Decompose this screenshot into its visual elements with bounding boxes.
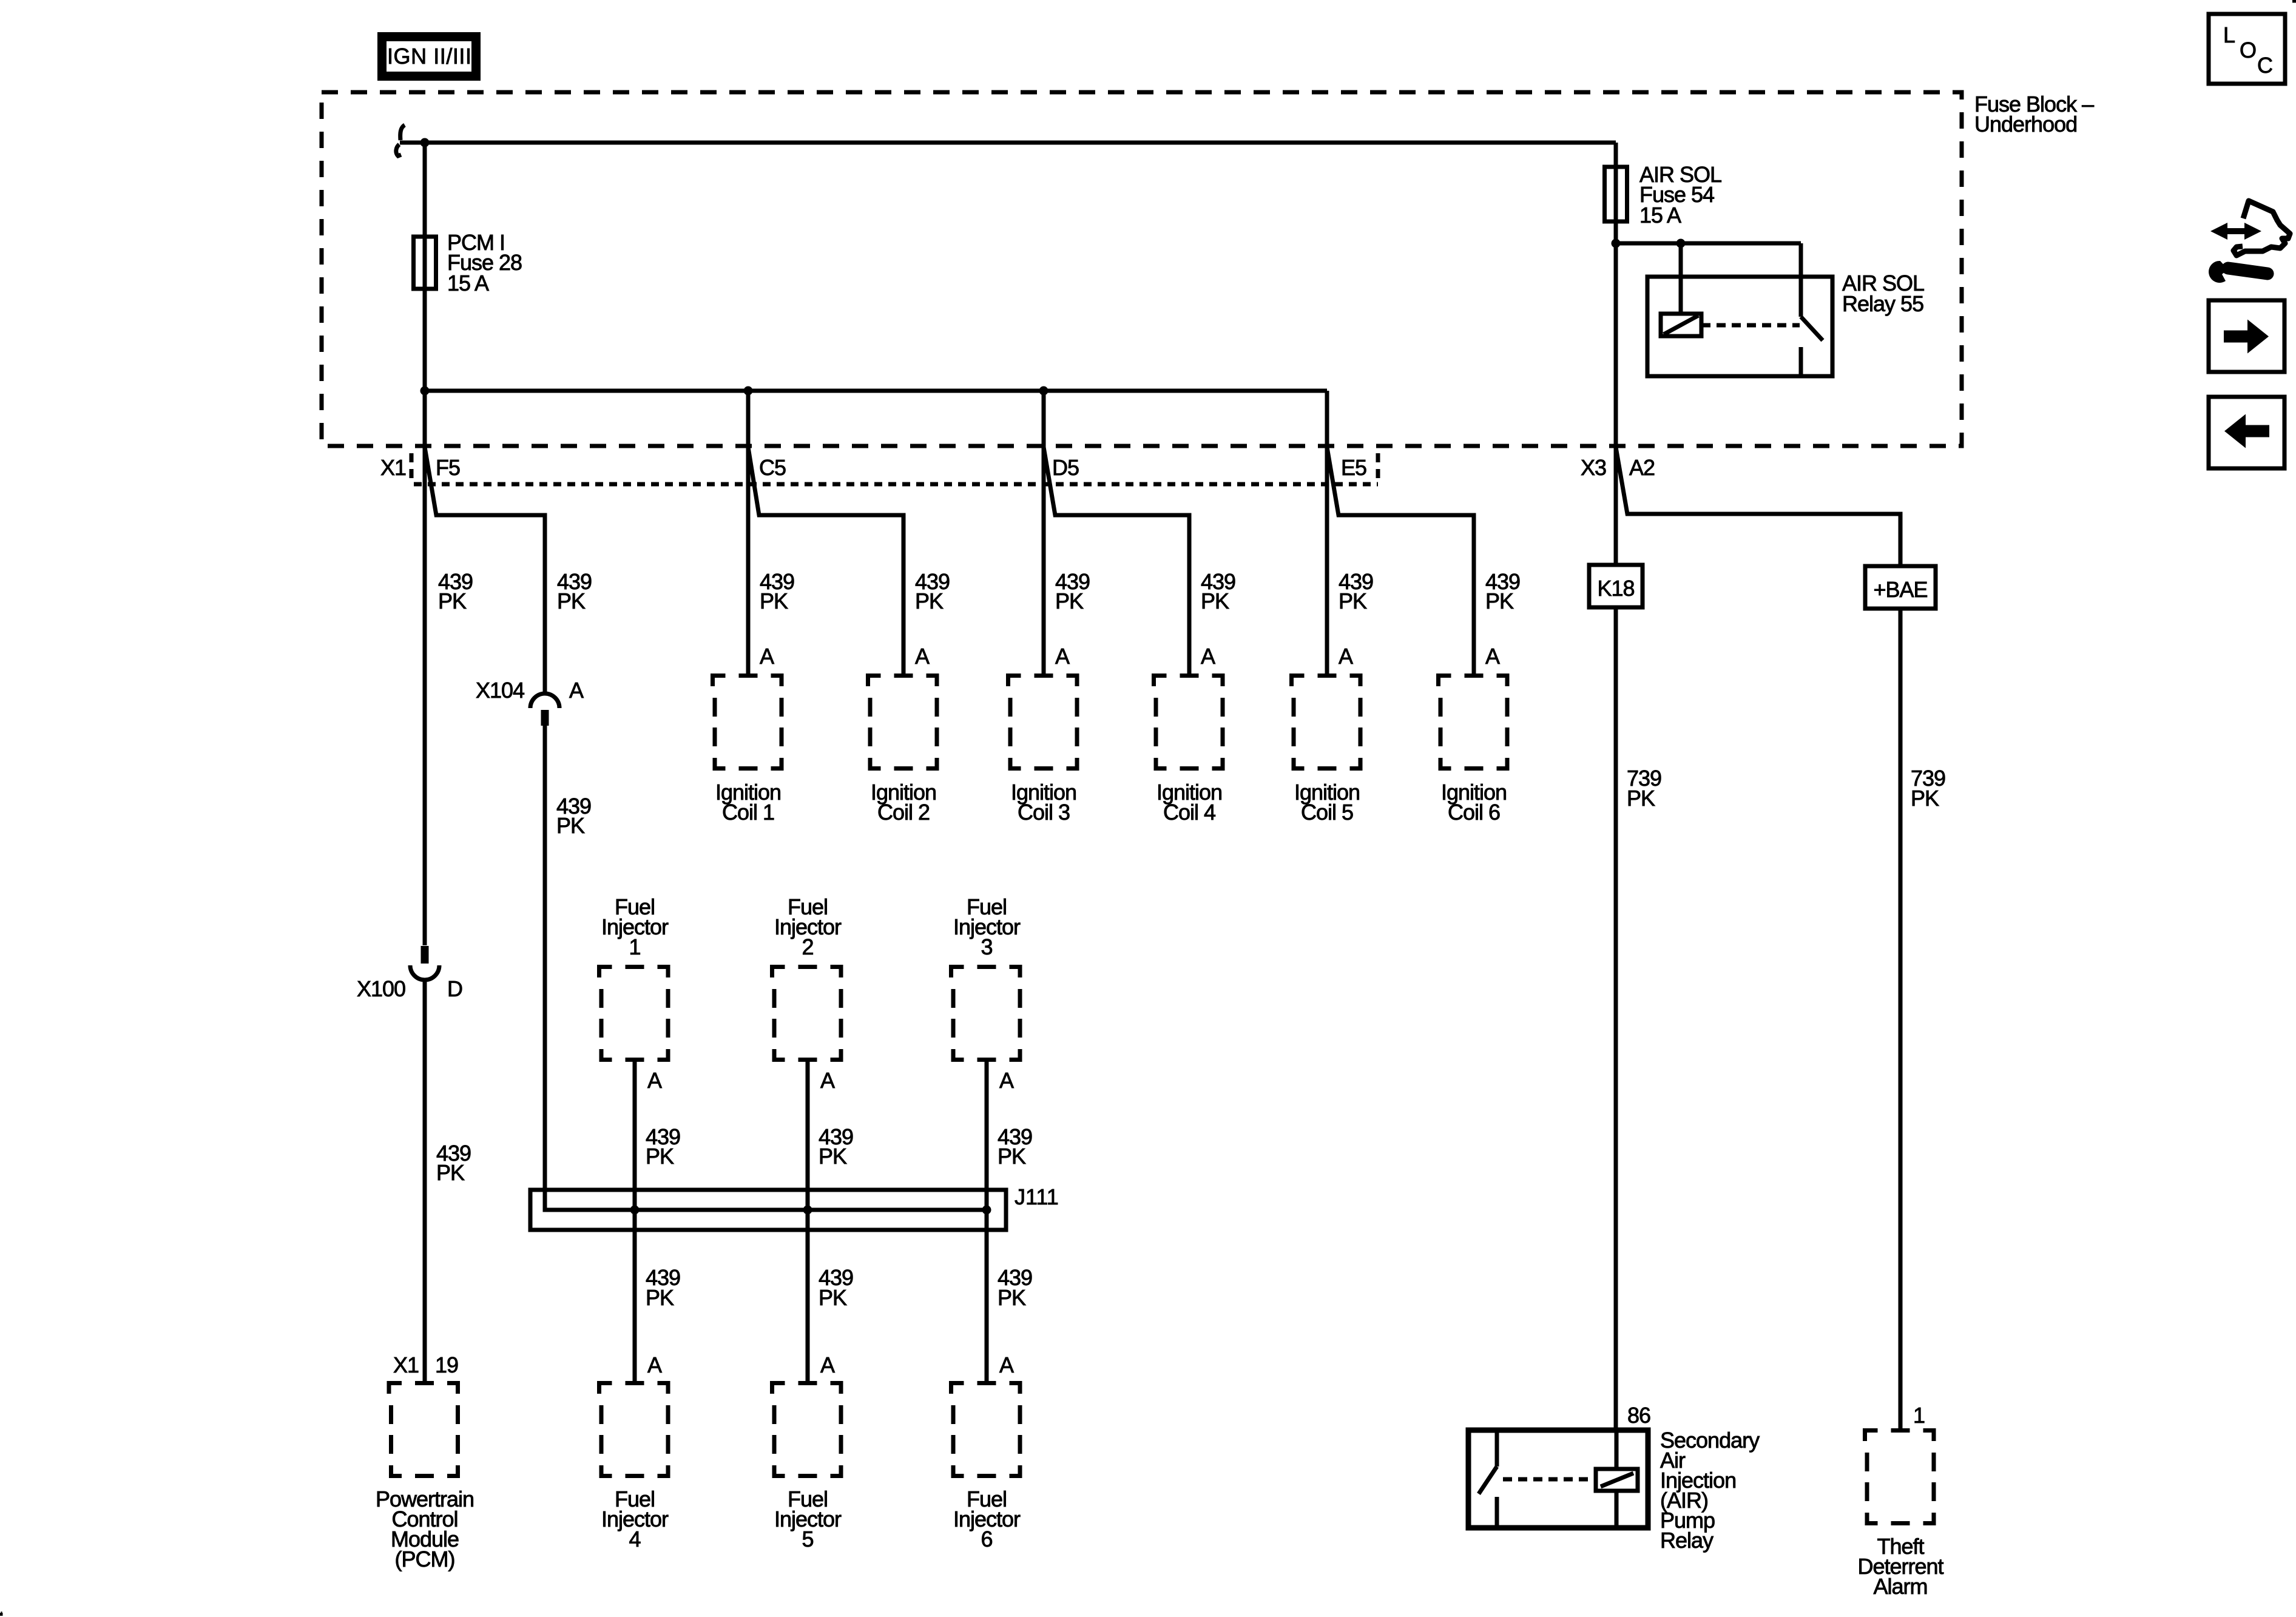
svg-text:PK: PK	[819, 1285, 847, 1310]
svg-text:C5: C5	[759, 455, 786, 480]
fuse PCM I Fuse 28 15A	[414, 237, 436, 289]
svg-text:PK: PK	[1055, 589, 1084, 613]
wire label 439 PK coil 4	[1201, 569, 1235, 613]
svg-text:2: 2	[802, 934, 813, 959]
label AIR SOL Relay 55	[1842, 271, 1924, 316]
svg-text:15 A: 15 A	[1639, 203, 1681, 228]
svg-text:J111: J111	[1015, 1184, 1059, 1209]
pump relay coil	[1596, 1469, 1638, 1491]
svg-text:PK: PK	[998, 1285, 1026, 1310]
label Fuel Injector 5	[774, 1487, 842, 1551]
label Fuel Injector 1	[601, 894, 669, 959]
label Ignition Coil 2	[871, 780, 936, 825]
label Ignition Coil 3	[1011, 780, 1076, 825]
svg-text:K18: K18	[1597, 576, 1634, 601]
component location icon (double arrow, outline, wrench)	[2209, 201, 2290, 283]
node: junction top bus / PCM fuse	[420, 138, 430, 147]
wire: second bus to ignition coil columns	[425, 389, 1327, 393]
svg-text:A: A	[1339, 644, 1353, 669]
fuse block underhood dashed box	[322, 92, 1962, 446]
connector row dotted line X1	[414, 482, 1378, 487]
AIR pump relay box	[1468, 1430, 1648, 1528]
label Powertrain Control Module (PCM)	[376, 1487, 474, 1571]
label Fuel Injector 4	[601, 1487, 669, 1551]
label Fuel Injector 3	[953, 894, 1021, 959]
svg-text:PK: PK	[760, 589, 788, 613]
svg-text:5: 5	[802, 1527, 813, 1551]
PCM box	[389, 1381, 460, 1478]
svg-text:F5: F5	[436, 455, 460, 480]
wire label 439 PK coil 2	[915, 569, 950, 613]
wire label 439 PK coil 3	[1055, 569, 1090, 613]
wire: C5 branch to coil 2	[748, 447, 903, 678]
svg-text:L: L	[2223, 22, 2235, 47]
label Ignition Coil 1	[715, 780, 781, 825]
node: splice junction 3	[982, 1206, 991, 1215]
wire label 439 PK injector 3	[998, 1124, 1032, 1169]
wire label 439 PK injector 6	[998, 1265, 1032, 1310]
svg-text:Relay 55: Relay 55	[1842, 291, 1923, 316]
wire label 439 PK injector 2	[819, 1124, 853, 1169]
ignition coil 3 box	[1008, 673, 1079, 771]
IGN II/III power feed tag box	[377, 32, 481, 81]
ignition coil 2 box	[868, 673, 939, 771]
pump relay coil feed	[1615, 1430, 1619, 1469]
relay 55 switch blade	[1801, 317, 1823, 340]
svg-text:19: 19	[435, 1352, 458, 1377]
connector row divider left	[410, 453, 414, 481]
svg-text:X100: X100	[357, 976, 405, 1001]
svg-text:PK: PK	[646, 1144, 674, 1169]
label 439 PK col X104	[557, 569, 592, 613]
node: junction D5 column	[1039, 387, 1048, 396]
relay 55 coil-switch dashed link	[1701, 323, 1800, 328]
svg-text:O: O	[2240, 38, 2256, 62]
wire: F5 branch to X104	[425, 447, 545, 694]
fuel injector 3 box	[951, 965, 1022, 1062]
svg-text:PK: PK	[1485, 589, 1514, 613]
label Ignition Coil 6	[1441, 780, 1507, 825]
svg-text:1: 1	[1913, 1403, 1925, 1428]
svg-text:PK: PK	[436, 1160, 465, 1185]
relay 55 coil	[1661, 314, 1701, 336]
svg-text:A: A	[760, 644, 774, 669]
pump relay switch top stub	[1495, 1433, 1499, 1467]
ignition coil 6 box	[1439, 673, 1510, 771]
wire: D5 branch to coil 4	[1044, 447, 1189, 678]
wire: injector 3 column	[985, 1058, 989, 1385]
svg-text:X1: X1	[380, 455, 406, 480]
label Ignition Coil 5	[1294, 780, 1360, 825]
svg-text:A: A	[820, 1068, 835, 1093]
svg-text:Alarm: Alarm	[1873, 1574, 1927, 1599]
svg-text:PK: PK	[1339, 589, 1367, 613]
wire: K18 to AIR pump relay	[1614, 607, 1618, 1430]
label Fuel Injector 2	[774, 894, 842, 959]
label PCM I Fuse 28 15 A	[447, 230, 522, 295]
svg-text:86: 86	[1627, 1403, 1650, 1428]
pump relay switch blade	[1479, 1467, 1497, 1494]
svg-text:15 A: 15 A	[447, 271, 489, 295]
pump relay dashed link	[1503, 1477, 1596, 1482]
label 439 PK X104 lower	[556, 794, 591, 838]
svg-text:A: A	[569, 678, 584, 703]
svg-text:A: A	[915, 644, 930, 669]
node: splice junction 2	[803, 1206, 812, 1215]
connector K18 box	[1589, 565, 1643, 607]
wire: relay feed line	[1616, 241, 1801, 246]
wire label 439 PK coil 5	[1339, 569, 1373, 613]
wire: relay coil drop	[1679, 243, 1683, 314]
svg-text:1: 1	[629, 934, 640, 959]
pump relay coil bottom stub	[1615, 1491, 1619, 1525]
node: junction relay coil feed	[1676, 239, 1686, 248]
ignition coil 4 box	[1154, 673, 1225, 771]
svg-text:A: A	[1201, 644, 1215, 669]
svg-text:PK: PK	[998, 1144, 1026, 1169]
node: splice junction 1	[630, 1206, 640, 1215]
wire label 439 PK injector 5	[819, 1265, 853, 1310]
fuel injector 2 box	[772, 965, 843, 1062]
svg-text:X3: X3	[1581, 455, 1606, 480]
wire: A2 branch to +BAE	[1616, 447, 1900, 566]
svg-text:4: 4	[629, 1527, 640, 1551]
svg-text:Coil 2: Coil 2	[877, 800, 930, 825]
svg-text:X1: X1	[393, 1352, 419, 1377]
label 739 PK right	[1911, 766, 1945, 811]
fuel injector 6 box	[951, 1381, 1022, 1478]
relay 55 switch contact	[1799, 347, 1803, 376]
wire: injector 2 column	[806, 1058, 810, 1385]
svg-text:A: A	[1055, 644, 1070, 669]
fuse block label	[1974, 92, 2094, 137]
fuse AIR SOL Fuse 54 15A	[1605, 167, 1627, 221]
wire: D5 column vertical	[1042, 391, 1046, 678]
svg-text:PK: PK	[1627, 786, 1655, 811]
wire: injector 1 column	[633, 1058, 637, 1385]
theft deterrent alarm box	[1865, 1428, 1936, 1525]
svg-text:X104: X104	[476, 678, 524, 703]
label 739 PK left	[1627, 766, 1661, 811]
svg-text:PK: PK	[438, 589, 467, 613]
relay AIR SOL Relay 55 box	[1647, 277, 1832, 376]
svg-text:D: D	[447, 976, 462, 1001]
ignition coil 1 box	[713, 673, 784, 771]
svg-text:A2: A2	[1629, 455, 1655, 480]
svg-text:Underhood: Underhood	[1974, 112, 2077, 137]
label Fuel Injector 6	[953, 1487, 1021, 1551]
back arrow nav box	[2209, 397, 2284, 468]
svg-text:PK: PK	[1201, 589, 1229, 613]
node: junction C5 column	[744, 387, 753, 396]
wire: relay switch drop	[1799, 243, 1803, 317]
svg-text:A: A	[1485, 644, 1500, 669]
LOC nav box	[2209, 14, 2285, 84]
svg-text:PK: PK	[1911, 786, 1939, 811]
svg-text:A: A	[999, 1352, 1014, 1377]
svg-text:D5: D5	[1052, 455, 1079, 480]
label 439 PK PCM column	[436, 1141, 471, 1185]
wire: E5 column vertical	[1325, 391, 1329, 678]
inline connector X100	[421, 946, 429, 964]
continuation curl at bus start	[396, 125, 405, 156]
back arrow	[2224, 414, 2269, 448]
svg-text:6: 6	[981, 1527, 992, 1551]
svg-text:Coil 1: Coil 1	[722, 800, 774, 825]
fuel injector 5 box	[772, 1381, 843, 1478]
wire: top feed bus	[400, 141, 1616, 145]
wire: AIR SOL fuse drop	[1614, 143, 1618, 565]
wire label 439 PK injector 1	[646, 1124, 680, 1169]
connector row divider right	[1376, 453, 1380, 481]
svg-text:PK: PK	[646, 1285, 674, 1310]
svg-text:A: A	[647, 1352, 662, 1377]
label AIR SOL Fuse 54 15 A	[1639, 162, 1721, 228]
page corner mark	[2292, 0, 2296, 3]
svg-text:A: A	[999, 1068, 1014, 1093]
wire: X100 to PCM	[423, 981, 427, 1385]
svg-text:PK: PK	[819, 1144, 847, 1169]
svg-text:Coil 6: Coil 6	[1448, 800, 1500, 825]
svg-text:PK: PK	[557, 589, 586, 613]
node: junction left bus 2	[420, 387, 430, 396]
label 439 PK col F5	[438, 569, 473, 613]
label Secondary Air Injection (AIR) Pump Relay	[1660, 1428, 1760, 1553]
wire label 439 PK injector 4	[646, 1265, 680, 1310]
inline connector X104	[530, 694, 559, 708]
wire: X104 to J111	[545, 726, 987, 1210]
page dot bottom left	[0, 1613, 3, 1616]
fuel injector 4 box	[599, 1381, 670, 1478]
svg-text:Coil 5: Coil 5	[1301, 800, 1353, 825]
wire: C5 column vertical	[746, 391, 751, 678]
svg-text:Relay: Relay	[1660, 1528, 1714, 1553]
wire label 439 PK coil 1	[760, 569, 794, 613]
svg-text:A: A	[647, 1068, 662, 1093]
svg-text:C: C	[2257, 53, 2272, 78]
label Ignition Coil 4	[1156, 780, 1222, 825]
svg-text:PK: PK	[556, 813, 585, 838]
label Theft Deterrent Alarm	[1857, 1534, 1943, 1599]
pump relay switch bottom stub	[1495, 1497, 1499, 1525]
svg-text:E5: E5	[1341, 455, 1366, 480]
wire: +BAE to theft deterrent alarm	[1899, 609, 1903, 1433]
forward arrow nav box	[2209, 300, 2284, 372]
wire: E5 branch to coil 6	[1327, 447, 1474, 678]
svg-text:3: 3	[981, 934, 992, 959]
forward arrow	[2224, 320, 2269, 354]
fuel injector 1 box	[599, 965, 670, 1062]
svg-text:PK: PK	[915, 589, 944, 613]
node: junction under AIR SOL fuse	[1612, 239, 1621, 248]
svg-text:A: A	[820, 1352, 835, 1377]
svg-text:Coil 4: Coil 4	[1163, 800, 1215, 825]
svg-text:(PCM): (PCM)	[395, 1547, 455, 1571]
svg-text:+BAE: +BAE	[1873, 577, 1927, 602]
connector +BAE box	[1865, 566, 1936, 609]
svg-text:Coil 3: Coil 3	[1018, 800, 1070, 825]
ignition coil 5 box	[1292, 673, 1363, 771]
wire: left vertical from top bus through fuse down to X100	[423, 143, 427, 945]
splice J111 box	[530, 1190, 1006, 1230]
wire label 439 PK coil 6	[1485, 569, 1520, 613]
